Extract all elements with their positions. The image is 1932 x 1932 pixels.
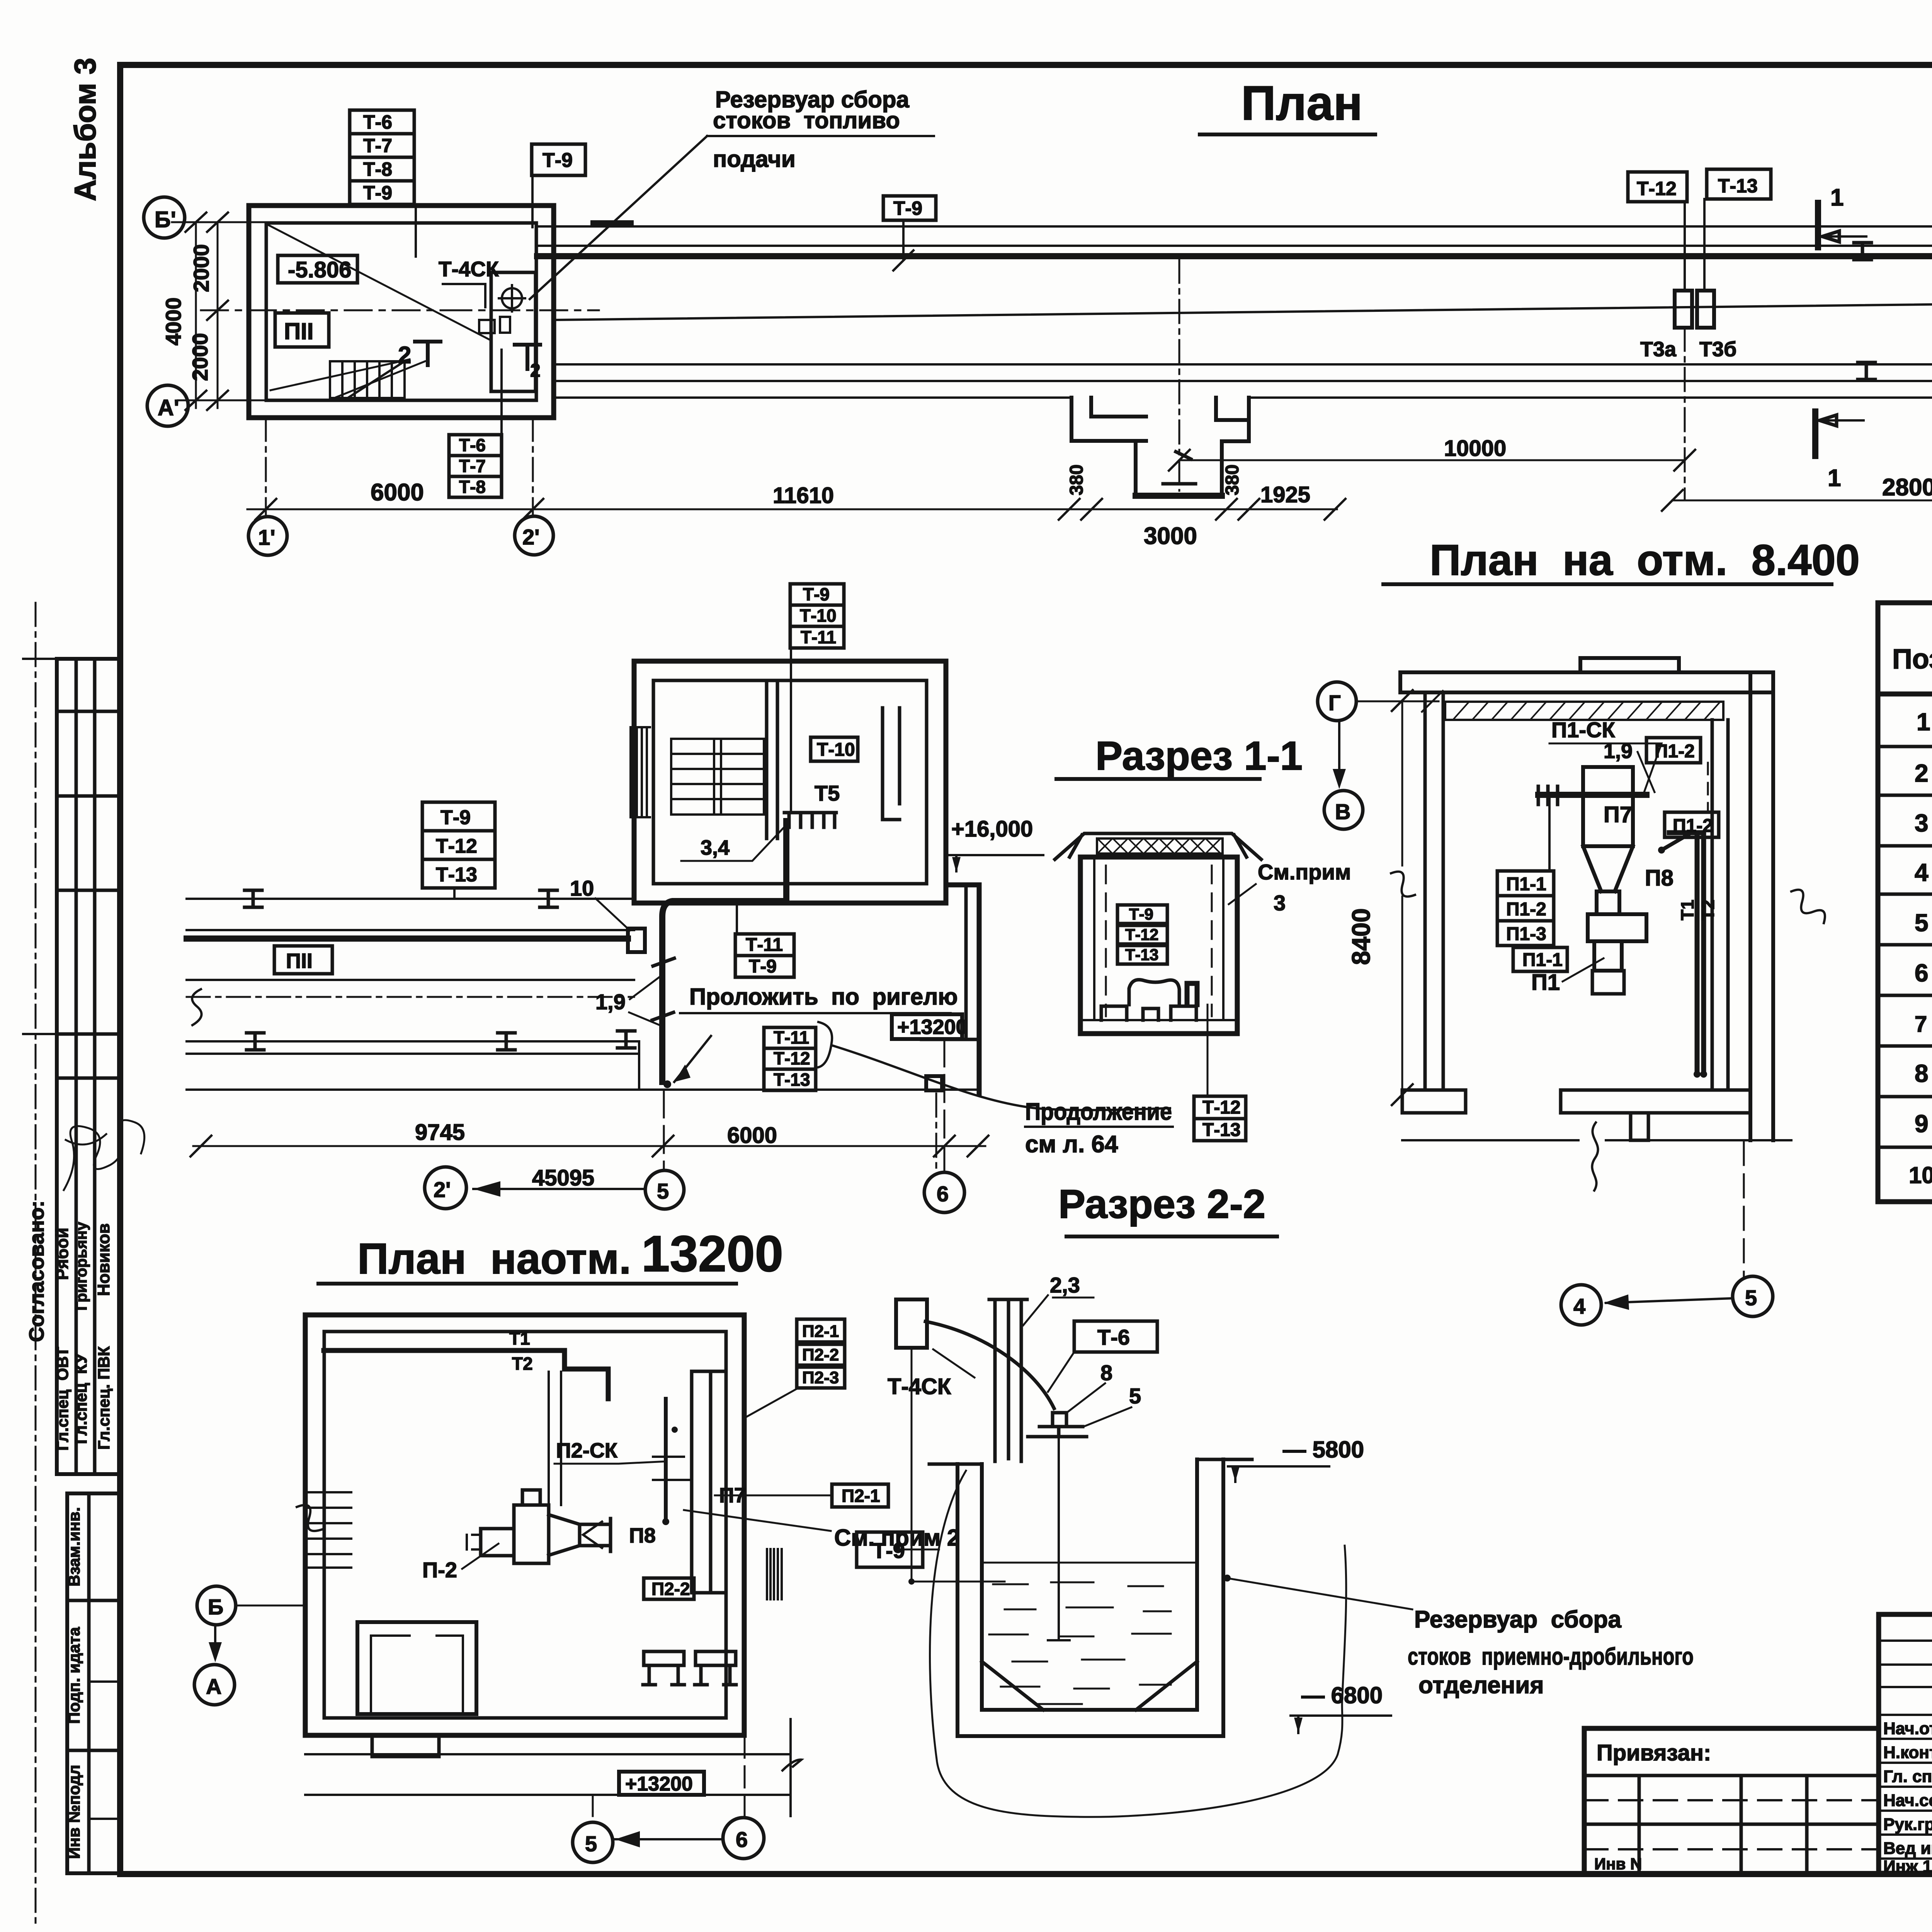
svg-text:Т3б: Т3б <box>1699 338 1736 361</box>
T-4CK enclosure <box>491 272 536 391</box>
svg-text:2: 2 <box>398 342 411 369</box>
svg-text:Т-13: Т-13 <box>1718 175 1758 197</box>
wing room right wall <box>946 885 979 1094</box>
svg-text:2': 2' <box>522 525 539 549</box>
I-beams mid band <box>245 890 635 1050</box>
svg-text:Инв N: Инв N <box>1594 1855 1642 1873</box>
flag stack Т-11/Т-12/Т-13 <box>764 1027 816 1090</box>
left footing <box>1402 1090 1466 1113</box>
svg-text:См.прим: См.прим <box>1258 860 1351 884</box>
cable comb 3,4 <box>784 813 836 827</box>
svg-text:Рук.гр.: Рук.гр. <box>1883 1815 1932 1834</box>
svg-text:П1-1: П1-1 <box>1522 950 1563 970</box>
pit outer wall <box>957 1459 1223 1736</box>
svg-text:Т-13: Т-13 <box>436 864 477 886</box>
wall pilaster hatch <box>631 727 650 817</box>
band centre dash <box>187 996 634 998</box>
svg-text:Т-9: Т-9 <box>749 956 777 977</box>
svg-text:+16,000: +16,000 <box>951 816 1033 842</box>
svg-text:11610: 11610 <box>773 483 834 508</box>
stairs in plan <box>330 361 405 398</box>
svg-text:Т-6: Т-6 <box>1097 1325 1130 1349</box>
svg-text:1,9: 1,9 <box>1604 740 1633 763</box>
svg-text:Т3а: Т3а <box>1640 338 1677 361</box>
excavation cloud <box>930 1471 1346 1817</box>
duct cap trapezoid <box>1055 833 1261 859</box>
main dimension line bottom <box>247 509 1337 510</box>
svg-text:8: 8 <box>1915 1060 1929 1087</box>
pit bottom slopes <box>982 1662 1197 1710</box>
svg-text:5: 5 <box>1129 1384 1141 1408</box>
duct box outer <box>1080 857 1237 1034</box>
pit top edges <box>929 1459 1252 1464</box>
interior leader diagonals <box>267 224 489 397</box>
svg-text:ПІІ: ПІІ <box>286 949 313 973</box>
svg-text:П2-2: П2-2 <box>802 1345 839 1364</box>
svg-text:П-2: П-2 <box>422 1558 457 1582</box>
svg-text:Т-13: Т-13 <box>1125 946 1158 964</box>
left stamp lower table: Взам.инв / Подп. и дата / Инв № подл <box>67 1493 120 1873</box>
svg-text:Т-13: Т-13 <box>774 1070 810 1090</box>
cable curve from box <box>925 1321 1054 1408</box>
svg-text:подачи: подачи <box>713 146 796 172</box>
svg-text:П2-1: П2-1 <box>842 1486 880 1506</box>
flag Т-13 <box>1707 169 1771 199</box>
svg-text:В: В <box>1335 799 1350 824</box>
flag stack П2-1/П2-2/П2-3 <box>744 1319 845 1418</box>
axis bubble 6 <box>723 1818 764 1859</box>
svg-text:Т-8: Т-8 <box>363 158 392 180</box>
axis bubble А <box>194 1665 235 1705</box>
building (left, plan) outer wall <box>249 206 554 418</box>
level box -5.806 <box>278 255 357 283</box>
axis bubble 2' <box>515 516 553 555</box>
flag П1-2 (lower) <box>1665 812 1719 837</box>
section mark 1 lower <box>1812 412 1818 456</box>
flag Т-9 <box>857 1532 923 1567</box>
cable stub at building exit <box>594 220 631 226</box>
svg-text:1,9: 1,9 <box>595 990 626 1014</box>
svg-text:4000: 4000 <box>161 298 185 346</box>
svg-text:Григорьяну: Григорьяну <box>73 1221 90 1310</box>
svg-text:6: 6 <box>1915 959 1929 987</box>
arrow Г to В <box>1338 721 1340 784</box>
room inner wall <box>324 1332 726 1718</box>
svg-text:П2-2: П2-2 <box>651 1579 690 1599</box>
svg-text:Т-7: Т-7 <box>363 135 392 156</box>
water surface and fill dashes <box>982 1562 1197 1564</box>
building inner wall <box>266 223 536 400</box>
flag П1-1 lower <box>1513 947 1567 971</box>
svg-text:Т-12: Т-12 <box>774 1048 810 1068</box>
bunker cyclone <box>1583 767 1633 846</box>
svg-text:Т-9: Т-9 <box>803 584 830 604</box>
svg-text:380: 380 <box>1066 464 1087 495</box>
stairs flight <box>671 739 764 815</box>
gallery lower band <box>554 364 1932 398</box>
svg-text:Т-12: Т-12 <box>1125 925 1158 944</box>
gallery band upper lines <box>537 226 1932 246</box>
svg-text:Нач.отд: Нач.отд <box>1883 1719 1932 1738</box>
svg-text:П2-СК: П2-СК <box>556 1439 618 1462</box>
svg-text:8400: 8400 <box>1347 908 1375 965</box>
svg-text:Разрез 1-1: Разрез 1-1 <box>1095 733 1303 779</box>
flag Т-9 (second) <box>883 196 936 220</box>
dim line 9745/6000 <box>193 1145 985 1147</box>
axis bubble 1' <box>248 517 287 555</box>
svg-text:Т-13: Т-13 <box>1202 1120 1241 1140</box>
dim ticks <box>255 499 1345 520</box>
svg-text:Б': Б' <box>155 207 176 232</box>
hatched slab <box>1445 702 1723 720</box>
wall break squiggle <box>1791 890 1825 923</box>
svg-text:Т2: Т2 <box>1698 900 1718 920</box>
axis bubble А' <box>147 385 188 426</box>
svg-text:П1-2: П1-2 <box>1655 741 1695 762</box>
duct box inner walls <box>1080 857 1237 1020</box>
pit in gallery floor <box>1071 398 1249 496</box>
exhauster body <box>514 1505 549 1563</box>
svg-text:П1-СК: П1-СК <box>1551 718 1615 742</box>
svg-text:1: 1 <box>1830 184 1844 211</box>
riser cables <box>1669 833 1704 1070</box>
svg-text:Т-9: Т-9 <box>440 806 471 829</box>
svg-text:Согласовано:: Согласовано: <box>25 1201 48 1342</box>
axis bubble 5 mid <box>645 1170 684 1209</box>
dim ticks left <box>185 213 228 410</box>
svg-text:стоков топливо: стоков топливо <box>713 107 900 133</box>
section mark 1 upper <box>1815 203 1821 247</box>
axis bubble 4 <box>1561 1285 1601 1325</box>
right outer wall <box>1750 672 1773 1140</box>
level box +13200 <box>892 1014 962 1039</box>
svg-text:П1-2: П1-2 <box>1673 816 1713 836</box>
svg-text:ПІІ: ПІІ <box>284 318 313 344</box>
Привязан table <box>1584 1728 1879 1873</box>
floor lines below plan <box>305 1754 791 1795</box>
heavy cable run on band <box>187 935 628 942</box>
flag П2-1 boxed <box>832 1484 888 1507</box>
flags Т-12/Т-13 lower <box>1194 1096 1246 1141</box>
svg-text:1: 1 <box>1917 708 1930 736</box>
svg-text:План наотм.: План наотм. <box>357 1235 631 1283</box>
room outer wall <box>305 1315 744 1735</box>
flag Т-9 (first) <box>532 144 585 175</box>
leader arrow to junction <box>674 1036 711 1082</box>
svg-text:6: 6 <box>736 1827 748 1852</box>
svg-text:Разрез 2-2: Разрез 2-2 <box>1058 1182 1265 1227</box>
svg-text:П8: П8 <box>1645 866 1673 891</box>
flag stack Т-11/Т-9 <box>735 903 794 977</box>
wall break squiggle <box>297 1505 322 1531</box>
svg-text:Т-10: Т-10 <box>800 605 837 626</box>
svg-text:5: 5 <box>657 1179 669 1203</box>
cap hatch <box>1097 838 1221 854</box>
svg-text:Гл.спец. ПВК: Гл.спец. ПВК <box>95 1346 113 1450</box>
svg-text:П8: П8 <box>629 1524 656 1547</box>
svg-text:6000: 6000 <box>371 479 424 506</box>
svg-text:1925: 1925 <box>1260 482 1310 507</box>
pull box ПК #2 <box>926 1076 942 1090</box>
interior flag stack Т-9/Т-12/Т-13 <box>1117 905 1167 964</box>
svg-text:П1: П1 <box>1531 970 1560 995</box>
axis bubble Г <box>1318 682 1356 721</box>
svg-text:Гл.спец КУ: Гл.спец КУ <box>72 1353 90 1444</box>
axis bubble 6 mid <box>924 1172 964 1213</box>
floor slab <box>1561 1090 1750 1113</box>
svg-text:Т-7: Т-7 <box>459 456 486 476</box>
cable cluster with dots <box>664 1399 668 1519</box>
svg-text:П1-3: П1-3 <box>1506 924 1546 944</box>
heavy cable on girder <box>1538 792 1646 798</box>
axis line Б' <box>172 221 270 223</box>
svg-text:10: 10 <box>1909 1162 1932 1188</box>
svg-text:3000: 3000 <box>1144 523 1197 549</box>
svg-text:— 6800: — 6800 <box>1301 1682 1383 1708</box>
svg-text:Подп. идата: Подп. идата <box>65 1627 83 1724</box>
svg-text:П1-2: П1-2 <box>1506 899 1546 920</box>
bump below room <box>372 1735 439 1757</box>
svg-text:Т-12: Т-12 <box>436 835 477 857</box>
band left break squiggle <box>192 989 201 1025</box>
svg-text:2': 2' <box>434 1177 451 1202</box>
I-beam symbols lower band <box>1858 362 1932 379</box>
svg-text:1: 1 <box>1828 465 1841 492</box>
stair treads left <box>307 1492 351 1568</box>
svg-text:Т-9: Т-9 <box>872 1538 905 1563</box>
svg-text:Нач.сек: Нач.сек <box>1883 1791 1932 1810</box>
heavy cable inside tower <box>662 821 786 1082</box>
axis bubble 5 <box>573 1822 613 1862</box>
svg-text:Т-9: Т-9 <box>893 197 922 219</box>
left dimension verticals <box>196 222 218 408</box>
leader line to flag T-12/T-13 <box>1207 1005 1209 1096</box>
ground line with break <box>1402 1122 1791 1190</box>
axis line mid <box>201 310 599 311</box>
pit inner wall <box>982 1459 1197 1710</box>
valve T3б <box>1697 291 1714 328</box>
vertical dim 8400 <box>1401 701 1403 1095</box>
right inner wall <box>1712 720 1728 1090</box>
axis bubble 5 <box>1733 1276 1773 1316</box>
svg-text:П1-1: П1-1 <box>1506 874 1546 895</box>
svg-text:Т-9: Т-9 <box>363 182 392 204</box>
svg-text:Б: Б <box>208 1595 223 1619</box>
svg-text:Т-9: Т-9 <box>543 149 573 172</box>
svg-text:1': 1' <box>258 525 275 549</box>
axis dash to bubble 6 <box>935 1094 937 1173</box>
svg-text:28000: 28000 <box>1882 474 1932 501</box>
sensor dipstick <box>1048 1437 1070 1640</box>
roof double line <box>1400 658 1773 692</box>
pull box ПК (pos.10) <box>628 929 645 952</box>
exhauster П-2: motor <box>481 1529 514 1556</box>
svg-text:-5.806: -5.806 <box>288 257 351 282</box>
left column <box>1425 692 1443 1090</box>
svg-text:10: 10 <box>570 876 594 900</box>
flag Т-12 <box>1628 172 1687 202</box>
cable saddle inside <box>1129 980 1179 1005</box>
svg-text:Т-12: Т-12 <box>1202 1097 1241 1118</box>
svg-text:5: 5 <box>1745 1286 1757 1310</box>
svg-text:3,4: 3,4 <box>701 836 730 859</box>
svg-text:13200: 13200 <box>641 1225 783 1282</box>
svg-text:Гл. спец.: Гл. спец. <box>1883 1767 1932 1786</box>
svg-text:П7: П7 <box>1604 802 1632 827</box>
floor step <box>1631 1113 1648 1140</box>
svg-text:4: 4 <box>1573 1294 1585 1318</box>
flag stack П1-1/П1-2/П1-3 <box>1497 795 1554 946</box>
right wall hatch strip <box>767 1549 782 1599</box>
svg-text:Т-11: Т-11 <box>746 935 783 955</box>
svg-text:Альбом 3: Альбом 3 <box>68 58 102 201</box>
svg-text:5: 5 <box>585 1832 597 1856</box>
axis vertical T3 <box>1684 328 1686 498</box>
exhauster cone and duct <box>549 1515 611 1555</box>
arrow 4-5 <box>1606 1298 1733 1303</box>
bracket and wavy leader to Продолжение <box>818 1022 832 1067</box>
svg-text:Т-4СК: Т-4СК <box>439 257 499 281</box>
svg-text:Г: Г <box>1328 690 1341 715</box>
cable mark Т2 <box>515 345 540 369</box>
svg-text:Т-8: Т-8 <box>459 477 486 497</box>
valve T3a <box>1675 291 1692 328</box>
flag Т-10 inside <box>811 737 858 761</box>
lower band lines <box>187 1041 979 1090</box>
interior partition <box>767 681 777 838</box>
box feet <box>1101 1006 1196 1020</box>
cable drop with junction <box>911 1348 913 1582</box>
flag stack Т-6/Т-7/Т-8/Т-9 above building <box>350 110 416 257</box>
svg-text:Т1: Т1 <box>1677 900 1697 920</box>
svg-text:2000: 2000 <box>189 244 213 293</box>
arrow 6 to 5 <box>615 1838 723 1840</box>
svg-text:Рябой: Рябой <box>53 1228 72 1280</box>
svg-text:8: 8 <box>1100 1361 1112 1385</box>
dim line 10000 <box>1179 459 1685 461</box>
svg-text:см л. 64: см л. 64 <box>1025 1131 1118 1158</box>
inner room bottom-left <box>357 1622 476 1714</box>
axis risers to bubbles 5/6 <box>593 1736 745 1822</box>
svg-text:Поз.: Поз. <box>1892 644 1932 675</box>
fitting box <box>500 317 510 333</box>
svg-text:Привязан:: Привязан: <box>1597 1740 1711 1765</box>
axis bubble В <box>1324 791 1363 829</box>
svg-text:стоков приемно-дробильного: стоков приемно-дробильного <box>1408 1643 1694 1670</box>
heavy cable at top of room <box>324 1350 608 1399</box>
svg-text:П2-1: П2-1 <box>802 1322 839 1341</box>
svg-text:Инв №подл: Инв №подл <box>65 1765 83 1859</box>
svg-text:4: 4 <box>1915 859 1929 886</box>
stand column double line <box>989 1299 1027 1461</box>
svg-text:Т-6: Т-6 <box>363 111 392 133</box>
svg-text:Инж 1к: Инж 1к <box>1883 1857 1932 1876</box>
svg-text:А': А' <box>158 395 179 420</box>
svg-text:Н.контр.: Н.контр. <box>1883 1743 1932 1762</box>
svg-text:Т5: Т5 <box>815 781 840 805</box>
svg-text:Проложить по ригелю: Проложить по ригелю <box>689 984 958 1010</box>
svg-text:Т1: Т1 <box>509 1328 530 1349</box>
band line lower <box>187 979 634 981</box>
stair tower outer wall <box>634 661 946 903</box>
signature scrawl left column <box>64 1120 145 1190</box>
axis verticals to bubbles <box>266 418 533 517</box>
instrument box <box>896 1299 927 1348</box>
svg-text:2: 2 <box>1915 759 1929 787</box>
svg-text:9745: 9745 <box>415 1120 465 1145</box>
svg-text:6000: 6000 <box>727 1123 777 1148</box>
svg-text:Взам.инв.: Взам.инв. <box>65 1507 83 1586</box>
svg-text:9: 9 <box>1915 1110 1929 1138</box>
sensor bracket <box>1028 1427 1087 1437</box>
svg-text:5: 5 <box>1915 909 1929 937</box>
svg-text:Т-4СК: Т-4СК <box>888 1374 951 1399</box>
svg-text:План: План <box>1241 77 1362 130</box>
svg-text:А: А <box>206 1674 221 1699</box>
svg-text:отделения: отделения <box>1418 1672 1544 1699</box>
flag stack Т-9/Т-10/Т-11 above tower <box>790 584 844 811</box>
riser duct verticals <box>549 1372 561 1505</box>
section arrow K <box>583 1522 602 1548</box>
left stamp: Согласовано table <box>23 659 120 1474</box>
svg-text:2: 2 <box>530 361 541 381</box>
svg-text:Новиков: Новиков <box>94 1223 113 1296</box>
gallery heavy rail <box>537 253 1932 259</box>
svg-text:45095: 45095 <box>532 1165 594 1190</box>
left margin dash-dot line <box>35 603 37 1928</box>
svg-text:Т-10: Т-10 <box>817 740 855 760</box>
label box ПII <box>275 313 329 347</box>
pit centre axis <box>1179 260 1180 491</box>
svg-text:Т2: Т2 <box>512 1354 533 1374</box>
flag poles to T3 valves <box>1685 199 1704 291</box>
axis line А' <box>178 400 270 401</box>
svg-text:Т-12: Т-12 <box>1637 178 1677 199</box>
svg-text:План на отм. 8.400: План на отм. 8.400 <box>1430 536 1860 584</box>
svg-text:6: 6 <box>937 1182 949 1206</box>
flag Т-6 <box>1074 1321 1157 1352</box>
svg-text:Гл.спец ОВТ: Гл.спец ОВТ <box>53 1347 71 1451</box>
svg-text:Т-9: Т-9 <box>1129 905 1153 923</box>
flag П1-2 (upper) <box>1646 738 1701 763</box>
supports bottom right <box>643 1651 684 1685</box>
label box ПII mid <box>274 946 332 974</box>
svg-text:Т-6: Т-6 <box>459 435 486 455</box>
svg-text:3: 3 <box>1915 809 1929 837</box>
svg-text:380: 380 <box>1222 464 1243 495</box>
junction ticks on cable <box>652 958 674 1020</box>
svg-text:+13200: +13200 <box>897 1015 968 1039</box>
svg-text:Вед инжн: Вед инжн <box>1883 1839 1932 1858</box>
svg-text:3: 3 <box>1274 891 1286 915</box>
L-partition right <box>883 708 900 820</box>
right break tick <box>782 1719 801 1816</box>
svg-text:2000: 2000 <box>188 333 212 381</box>
svg-text:Т-11: Т-11 <box>774 1027 809 1048</box>
flag stack Т-6/Т-7/Т-8 below building <box>449 350 502 497</box>
gallery line (conveyor) <box>554 296 1932 320</box>
svg-text:2,3: 2,3 <box>1050 1273 1080 1297</box>
svg-text:— 5800: — 5800 <box>1283 1437 1364 1463</box>
svg-text:7: 7 <box>1915 1012 1927 1037</box>
dim line 28000 <box>1672 500 1932 502</box>
manhole symbol <box>502 288 522 308</box>
svg-text:+13200: +13200 <box>625 1773 693 1795</box>
svg-text:Т-11: Т-11 <box>801 627 836 647</box>
mid band upper lines <box>187 899 634 930</box>
axis bubble 2' mid <box>425 1167 466 1209</box>
arrow Б to А <box>214 1626 216 1658</box>
